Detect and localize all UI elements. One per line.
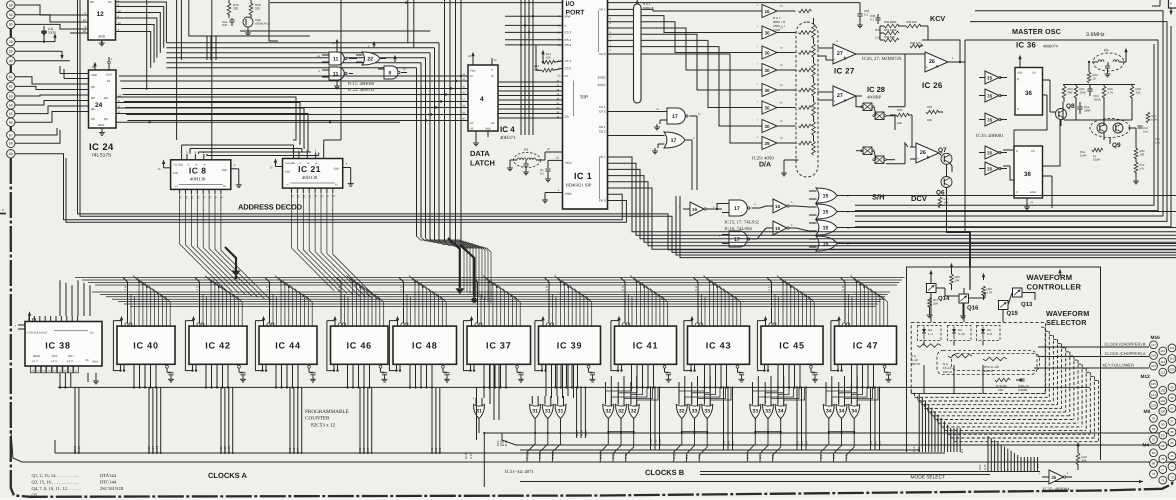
label 36mhz — [1086, 32, 1105, 38]
svg-text:77: 77 — [1161, 468, 1165, 472]
label MJM072S — [862, 56, 902, 62]
svg-text:115: 115 — [1151, 364, 1156, 368]
svg-text:0.01: 0.01 — [1143, 130, 1149, 133]
svg-text:34: 34 — [778, 409, 784, 415]
svg-text:62: 62 — [9, 85, 13, 89]
thick wire DCV to waveform — [946, 196, 970, 267]
label IC31-34 — [505, 469, 535, 475]
svg-text:68: 68 — [9, 142, 13, 146]
svg-text:CLK: CLK — [52, 354, 58, 358]
wire selector drops A — [988, 436, 1038, 472]
label clk b16 — [499, 440, 508, 446]
svg-text:WAVEFORM: WAVEFORM — [1027, 273, 1073, 282]
svg-text:40H138: 40H138 — [190, 176, 206, 182]
wire IC12 right elbows — [116, 2, 167, 68]
svg-text:113: 113 — [1160, 360, 1165, 364]
svg-text:A 11: A 11 — [624, 453, 628, 459]
switch IC28 a — [861, 103, 886, 120]
svg-text:B 5: B 5 — [800, 440, 804, 445]
resistor R10 — [1076, 442, 1087, 470]
svg-text:78: 78 — [1161, 457, 1165, 461]
IC 4 label — [500, 125, 516, 141]
svg-text:CK: CK — [1031, 150, 1035, 153]
svg-text:A: A — [204, 163, 206, 166]
gate 17d — [719, 231, 757, 247]
svg-text:CS: CS — [85, 359, 89, 362]
selector inner dashed — [937, 351, 1040, 375]
label waveform selector — [1046, 309, 1089, 327]
selector resistors — [911, 344, 1029, 392]
svg-text:22: 22 — [367, 57, 373, 63]
svg-text:15: 15 — [823, 194, 829, 200]
wire conn to IC12 — [15, 5, 88, 33]
svg-text:103: 103 — [1151, 403, 1156, 407]
svg-text:A 6: A 6 — [759, 454, 763, 459]
svg-text:Q16: Q16 — [967, 305, 979, 312]
svg-text:Y 0: Y 0 — [841, 286, 845, 291]
wire PA bus to DA buffers — [608, 8, 763, 143]
svg-text:IC 36: IC 36 — [1016, 41, 1036, 50]
svg-text:G1 G2B: G1 G2B — [174, 163, 184, 166]
svg-text:22K: 22K — [1136, 90, 1141, 94]
svg-text:15K: 15K — [998, 388, 1003, 392]
svg-text:Q0: Q0 — [91, 107, 95, 111]
transistor pair Q9 — [1090, 119, 1130, 150]
wire sh to right — [886, 54, 908, 164]
svg-text:109: 109 — [1169, 367, 1174, 371]
wire mode select line — [520, 480, 1143, 483]
wire conn 67 68 — [15, 128, 60, 143]
IC1 power pins — [540, 157, 563, 203]
svg-text:93: 93 — [1152, 417, 1156, 421]
svg-text:30: 30 — [764, 105, 770, 110]
svg-text:99: 99 — [1170, 385, 1174, 389]
wire 15 outputs right — [846, 196, 1176, 244]
counter IC 47 — [831, 316, 897, 388]
wire F2 vcc — [507, 148, 563, 171]
counter IC 39 — [535, 316, 601, 388]
gate 22 — [356, 41, 386, 65]
wire bus pair vertical — [78, 0, 1176, 250]
svg-text:10K: 10K — [933, 301, 938, 305]
DA ladder RA7 — [781, 9, 818, 177]
svg-text:b: b — [844, 56, 847, 61]
svg-text:PB 7: PB 7 — [599, 155, 606, 159]
resistor R66 — [982, 286, 993, 300]
switch IC28 b — [861, 147, 886, 164]
svg-text:Y 2: Y 2 — [266, 286, 270, 291]
svg-text:31: 31 — [532, 409, 538, 415]
svg-text:10K×8: 10K×8 — [943, 370, 952, 374]
svg-text:69: 69 — [9, 152, 13, 156]
svg-text:R30 68K: R30 68K — [884, 35, 895, 39]
svg-text:D7: D7 — [565, 74, 569, 78]
wire clkB rail4 — [496, 433, 1176, 446]
svg-text:80: 80 — [1152, 462, 1156, 466]
svg-text:E: E — [565, 24, 567, 28]
counter IC 41 — [611, 316, 677, 388]
wire ic37 drops — [484, 364, 499, 420]
IC 1 — [558, 0, 612, 209]
svg-text:Q: Q — [1017, 78, 1019, 81]
transistor Q16 — [959, 273, 985, 322]
KCV resistor network — [870, 14, 945, 48]
svg-text:A 14: A 14 — [538, 453, 542, 459]
svg-text:74LS175: 74LS175 — [91, 153, 111, 159]
label programmable counter — [305, 409, 349, 429]
svg-text:IC15, 17: 74LS32: IC15, 17: 74LS32 — [725, 220, 760, 226]
svg-text:PA 0: PA 0 — [599, 52, 605, 56]
svg-text:WAVEFORM: WAVEFORM — [1046, 309, 1089, 318]
wire q7q6 — [939, 153, 952, 196]
label waveform controller — [1027, 273, 1082, 292]
op-amp IC26 b — [910, 143, 939, 163]
svg-text:IC 48: IC 48 — [412, 340, 438, 350]
svg-text:CS 1: CS 1 — [565, 59, 572, 63]
gate11 gnd — [334, 80, 340, 89]
svg-text:IC 45: IC 45 — [779, 340, 805, 350]
svg-text:92: 92 — [1152, 427, 1156, 431]
svg-text:A 10: A 10 — [672, 453, 676, 459]
wire decoder select feeds — [182, 0, 341, 156]
wire bundle staircase to bus — [417, 236, 492, 303]
svg-text:SIP: SIP — [580, 95, 589, 101]
svg-text:R: R — [1017, 108, 1019, 111]
svg-text:66: 66 — [9, 121, 13, 125]
svg-text:+: + — [834, 99, 836, 103]
IC36 box 1 — [1015, 55, 1043, 115]
counter IC 46 — [327, 316, 388, 388]
svg-text:IRQ'A: IRQ'A — [598, 83, 606, 87]
label SH — [872, 193, 885, 202]
svg-text:D0: D0 — [491, 122, 495, 125]
selector vertical links — [924, 341, 983, 395]
op-amp IC27 a — [833, 86, 862, 106]
svg-text:Q13: Q13 — [1021, 301, 1033, 308]
svg-text:A 10: A 10 — [227, 446, 231, 452]
wire top stub a — [408, 0, 414, 48]
svg-text:Y 2: Y 2 — [694, 286, 698, 291]
page margin bottom — [0, 498, 1176, 500]
counter IC 40 — [113, 316, 175, 388]
svg-text:100K: 100K — [1151, 118, 1157, 121]
page border left upper — [10, 158, 12, 300]
svg-text:36: 36 — [1024, 171, 1031, 178]
IC36 box 2 — [1014, 146, 1043, 210]
label clocks A — [208, 471, 247, 480]
svg-text:12: 12 — [97, 11, 105, 18]
svg-text:Q0: Q0 — [91, 85, 95, 89]
svg-text:4: 4 — [480, 96, 484, 103]
svg-text:B 12: B 12 — [649, 439, 653, 445]
gate 16 inv — [679, 202, 715, 216]
svg-text:30: 30 — [764, 68, 770, 73]
svg-text:CONTROLLER: CONTROLLER — [1027, 283, 1082, 292]
svg-text:33: 33 — [692, 409, 698, 415]
svg-text:COM: COM — [773, 28, 781, 32]
svg-text:B 1: B 1 — [878, 440, 882, 445]
svg-text:OC: OC — [470, 128, 474, 131]
svg-text:SELECTOR: SELECTOR — [1046, 318, 1087, 327]
svg-text:IC 4: IC 4 — [500, 125, 515, 134]
svg-text:22K: 22K — [897, 121, 902, 125]
svg-text:B 3: B 3 — [869, 440, 873, 445]
svg-text:Q5: Q5 — [32, 493, 38, 498]
svg-text:15: 15 — [823, 210, 829, 216]
svg-text:S/H: S/H — [872, 193, 885, 202]
svg-text:D7: D7 — [491, 75, 495, 78]
IC1 control wires — [505, 0, 563, 135]
svg-text:40H373: 40H373 — [500, 135, 516, 141]
svg-text:A: A — [316, 162, 318, 165]
svg-text:CS 2: CS 2 — [565, 31, 572, 35]
svg-text:IC 44: IC 44 — [275, 340, 301, 350]
svg-text:B 11: B 11 — [653, 439, 657, 445]
IC 36 label — [1016, 41, 1059, 50]
wire band mid2 — [846, 195, 1176, 197]
svg-text:IC 37: IC 37 — [486, 340, 512, 350]
svg-text:CLK: CLK — [978, 464, 982, 470]
corner wires — [1152, 0, 1160, 6]
svg-text:67: 67 — [9, 133, 13, 137]
svg-text:97: 97 — [1170, 407, 1174, 411]
transistor Q6 — [936, 177, 952, 197]
label mode select — [911, 475, 945, 481]
counter IC 38 — [25, 311, 102, 373]
svg-text:LATCH: LATCH — [470, 159, 495, 168]
gates label 74LS32 — [725, 220, 760, 233]
gate 11b — [319, 67, 353, 80]
svg-text:2 1 0: 2 1 0 — [32, 360, 38, 363]
svg-text:B 13: B 13 — [584, 430, 588, 436]
svg-text:R: R — [1016, 191, 1018, 194]
wire ic36 q8 — [1014, 80, 1050, 146]
svg-text:Y 4: Y 4 — [124, 286, 128, 291]
wire clocksA rail — [55, 440, 945, 454]
wire bus y222 — [66, 158, 626, 222]
svg-text:CL: CL — [107, 79, 111, 83]
svg-text:Q1, 2, 13, 14 . . . . . . . .: Q1, 2, 13, 14 . . . . . . . . . . — [32, 473, 79, 478]
IC 28 label — [867, 85, 885, 100]
gates label IC11 IC22 — [348, 81, 375, 92]
svg-text:102: 102 — [1160, 388, 1165, 392]
svg-text:D5: D5 — [108, 0, 112, 4]
wire 16 17 links — [712, 204, 809, 240]
svg-text:A 7: A 7 — [296, 447, 300, 452]
counter IC 43 — [684, 316, 750, 388]
svg-text:R/W: R/W — [565, 15, 571, 19]
gate 16b — [766, 199, 796, 213]
wire ladder out — [818, 48, 834, 100]
wire top h2 — [240, 30, 430, 32]
svg-text:59: 59 — [9, 13, 13, 17]
svg-text:34: 34 — [839, 409, 845, 415]
svg-text:32: 32 — [631, 409, 637, 415]
svg-text:CS 0: CS 0 — [565, 67, 572, 71]
svg-text:16: 16 — [764, 9, 770, 14]
switch sh feed — [856, 96, 862, 151]
svg-text:CB 2: CB 2 — [599, 130, 606, 134]
svg-text:111: 111 — [1170, 346, 1175, 350]
wire gate drop bus 3 — [676, 196, 1176, 255]
svg-text:CLOCKS A: CLOCKS A — [208, 471, 247, 480]
svg-text:12: 12 — [83, 18, 87, 22]
svg-text:88: 88 — [1161, 444, 1165, 448]
svg-text:10K: 10K — [534, 67, 539, 71]
gate 17b gnd — [608, 136, 659, 154]
gate 16c — [766, 221, 796, 235]
svg-text:27: 27 — [837, 93, 843, 99]
label DCV — [911, 194, 927, 203]
svg-text:36: 36 — [1025, 90, 1032, 97]
svg-text:C36 22P: C36 22P — [906, 20, 917, 24]
svg-text:DATA: DATA — [470, 149, 490, 158]
transistor Q14 — [927, 270, 951, 322]
transistor Q15 — [999, 301, 1019, 323]
selector staircase dashed — [911, 327, 1098, 442]
svg-text:IC 27: IC 27 — [834, 67, 855, 76]
svg-text:12: 12 — [118, 94, 122, 98]
svg-text:30: 30 — [764, 30, 770, 35]
svg-text:OUT: OUT — [68, 354, 74, 358]
svg-text:28: 28 — [9, 40, 13, 44]
svg-text:M8: M8 — [1144, 409, 1151, 415]
svg-text:10K: 10K — [955, 278, 960, 282]
svg-text:104: 104 — [1151, 393, 1156, 397]
wire Y select drops — [123, 278, 845, 327]
connector M field — [1141, 335, 1176, 484]
svg-text:22K×8: 22K×8 — [911, 362, 920, 366]
svg-text:110: 110 — [1170, 357, 1175, 361]
wire conn 40 — [15, 60, 70, 62]
svg-text:Q0: Q0 — [104, 117, 108, 121]
gates 15 quad — [809, 188, 850, 251]
label IC29 — [752, 156, 774, 169]
waveform box — [907, 267, 1101, 460]
svg-text:10/16: 10/16 — [1094, 97, 1101, 101]
svg-text:A 16: A 16 — [983, 464, 987, 470]
svg-text:A 13: A 13 — [155, 446, 159, 452]
wire IC8 outputs — [180, 195, 271, 300]
svg-text:4.7K: 4.7K — [1108, 90, 1114, 94]
gate 11a — [317, 52, 357, 65]
wire mosc top lines — [855, 11, 1167, 222]
svg-text:A 2: A 2 — [845, 454, 849, 459]
svg-text:CLK: CLK — [912, 446, 916, 452]
svg-text:31: 31 — [545, 409, 551, 415]
svg-text:IC 40: IC 40 — [133, 340, 159, 350]
transistor Q13 — [1013, 269, 1062, 308]
transistor Q8 — [1050, 103, 1075, 126]
svg-text:Q4, 7, 8, 10, 11, 12 . . . .: Q4, 7, 8, 10, 11, 12 . . . . . . — [32, 486, 81, 491]
svg-text:IC 46: IC 46 — [346, 340, 372, 350]
resistor R52 — [1087, 61, 1098, 83]
svg-text:100K×8: 100K×8 — [643, 6, 654, 10]
svg-text:G2A: G2A — [222, 169, 227, 172]
svg-text:B 6: B 6 — [795, 440, 799, 445]
svg-text:3.6MHz: 3.6MHz — [1086, 32, 1105, 38]
svg-text:IC 28: IC 28 — [867, 85, 885, 94]
svg-text:0.1: 0.1 — [870, 17, 874, 21]
filter F2 — [510, 148, 545, 175]
svg-text:2SC1815GR: 2SC1815GR — [100, 486, 124, 491]
svg-text:IC 42: IC 42 — [205, 340, 231, 350]
gates 32 33 34 — [599, 376, 860, 462]
svg-text:33: 33 — [704, 409, 710, 415]
svg-text:35: 35 — [987, 93, 993, 98]
op-amp IC26 a — [925, 52, 965, 72]
svg-text:0.01: 0.01 — [222, 23, 228, 27]
svg-text:65: 65 — [9, 112, 13, 116]
op-amp IC27 b — [833, 40, 925, 64]
svg-text:VSS: VSS — [565, 192, 571, 196]
IC38 bottom wires — [59, 373, 71, 389]
svg-text:VDD: VDD — [1017, 72, 1023, 75]
svg-text:A 12: A 12 — [612, 453, 616, 459]
svg-text:31: 31 — [558, 409, 564, 415]
svg-text:B 10: B 10 — [658, 439, 662, 445]
label clk a16 right — [960, 448, 1040, 470]
IC 24 — [89, 57, 117, 135]
svg-text:I/O: I/O — [566, 1, 575, 8]
wire PB band — [608, 157, 1176, 249]
svg-text:29: 29 — [764, 141, 770, 146]
svg-text:DTC144: DTC144 — [100, 480, 117, 485]
svg-text:IC 26: IC 26 — [922, 81, 943, 90]
svg-text:30: 30 — [764, 88, 770, 93]
svg-text:VCC: VCC — [565, 161, 572, 165]
svg-text:150P: 150P — [1080, 153, 1087, 157]
svg-text:B 15: B 15 — [575, 430, 579, 436]
svg-text:IC 39: IC 39 — [557, 340, 583, 350]
svg-text:D/A: D/A — [759, 161, 771, 169]
svg-text:B 1: B 1 — [960, 448, 964, 453]
svg-text:15: 15 — [823, 226, 829, 232]
resistor R03 — [950, 263, 960, 290]
svg-text:MASTER OSC: MASTER OSC — [1012, 27, 1061, 36]
svg-text:IRQ'B: IRQ'B — [598, 76, 606, 80]
svg-text:33K: 33K — [1082, 459, 1087, 463]
svg-text:CA 1: CA 1 — [599, 105, 606, 109]
svg-text:220: 220 — [233, 7, 238, 11]
counter IC 48 — [389, 316, 456, 388]
gate 9 — [378, 55, 407, 79]
svg-text:64: 64 — [9, 103, 13, 107]
capacitor C11 — [41, 26, 56, 42]
wire kcv fb — [918, 40, 961, 63]
svg-text:CLOCK (CHOPPER) B: CLOCK (CHOPPER) B — [1104, 342, 1145, 347]
counter IC 45 — [757, 316, 823, 388]
svg-text:Y 6: Y 6 — [474, 286, 478, 291]
label IC35 40H001 — [976, 133, 1004, 139]
wire conn to IC24 — [15, 66, 89, 122]
wire main bus horizontals — [75, 276, 905, 307]
svg-text:B 14: B 14 — [579, 430, 583, 436]
wire bus pair vertical 2 — [80, 0, 1176, 252]
svg-text:34: 34 — [851, 409, 857, 415]
svg-text:10K: 10K — [546, 55, 551, 59]
svg-text:58: 58 — [9, 3, 13, 7]
svg-text:0.0068: 0.0068 — [1018, 388, 1028, 392]
svg-text:M4: M4 — [1143, 443, 1150, 449]
svg-text:16: 16 — [775, 226, 781, 231]
IC 26 label — [922, 81, 943, 90]
resistor R67 — [927, 298, 939, 318]
wire IC24 D0 bus — [116, 121, 400, 123]
svg-text:40H138: 40H138 — [302, 175, 318, 181]
buffers IC29 4050 — [757, 4, 796, 150]
connector P left column — [7, 1, 15, 158]
